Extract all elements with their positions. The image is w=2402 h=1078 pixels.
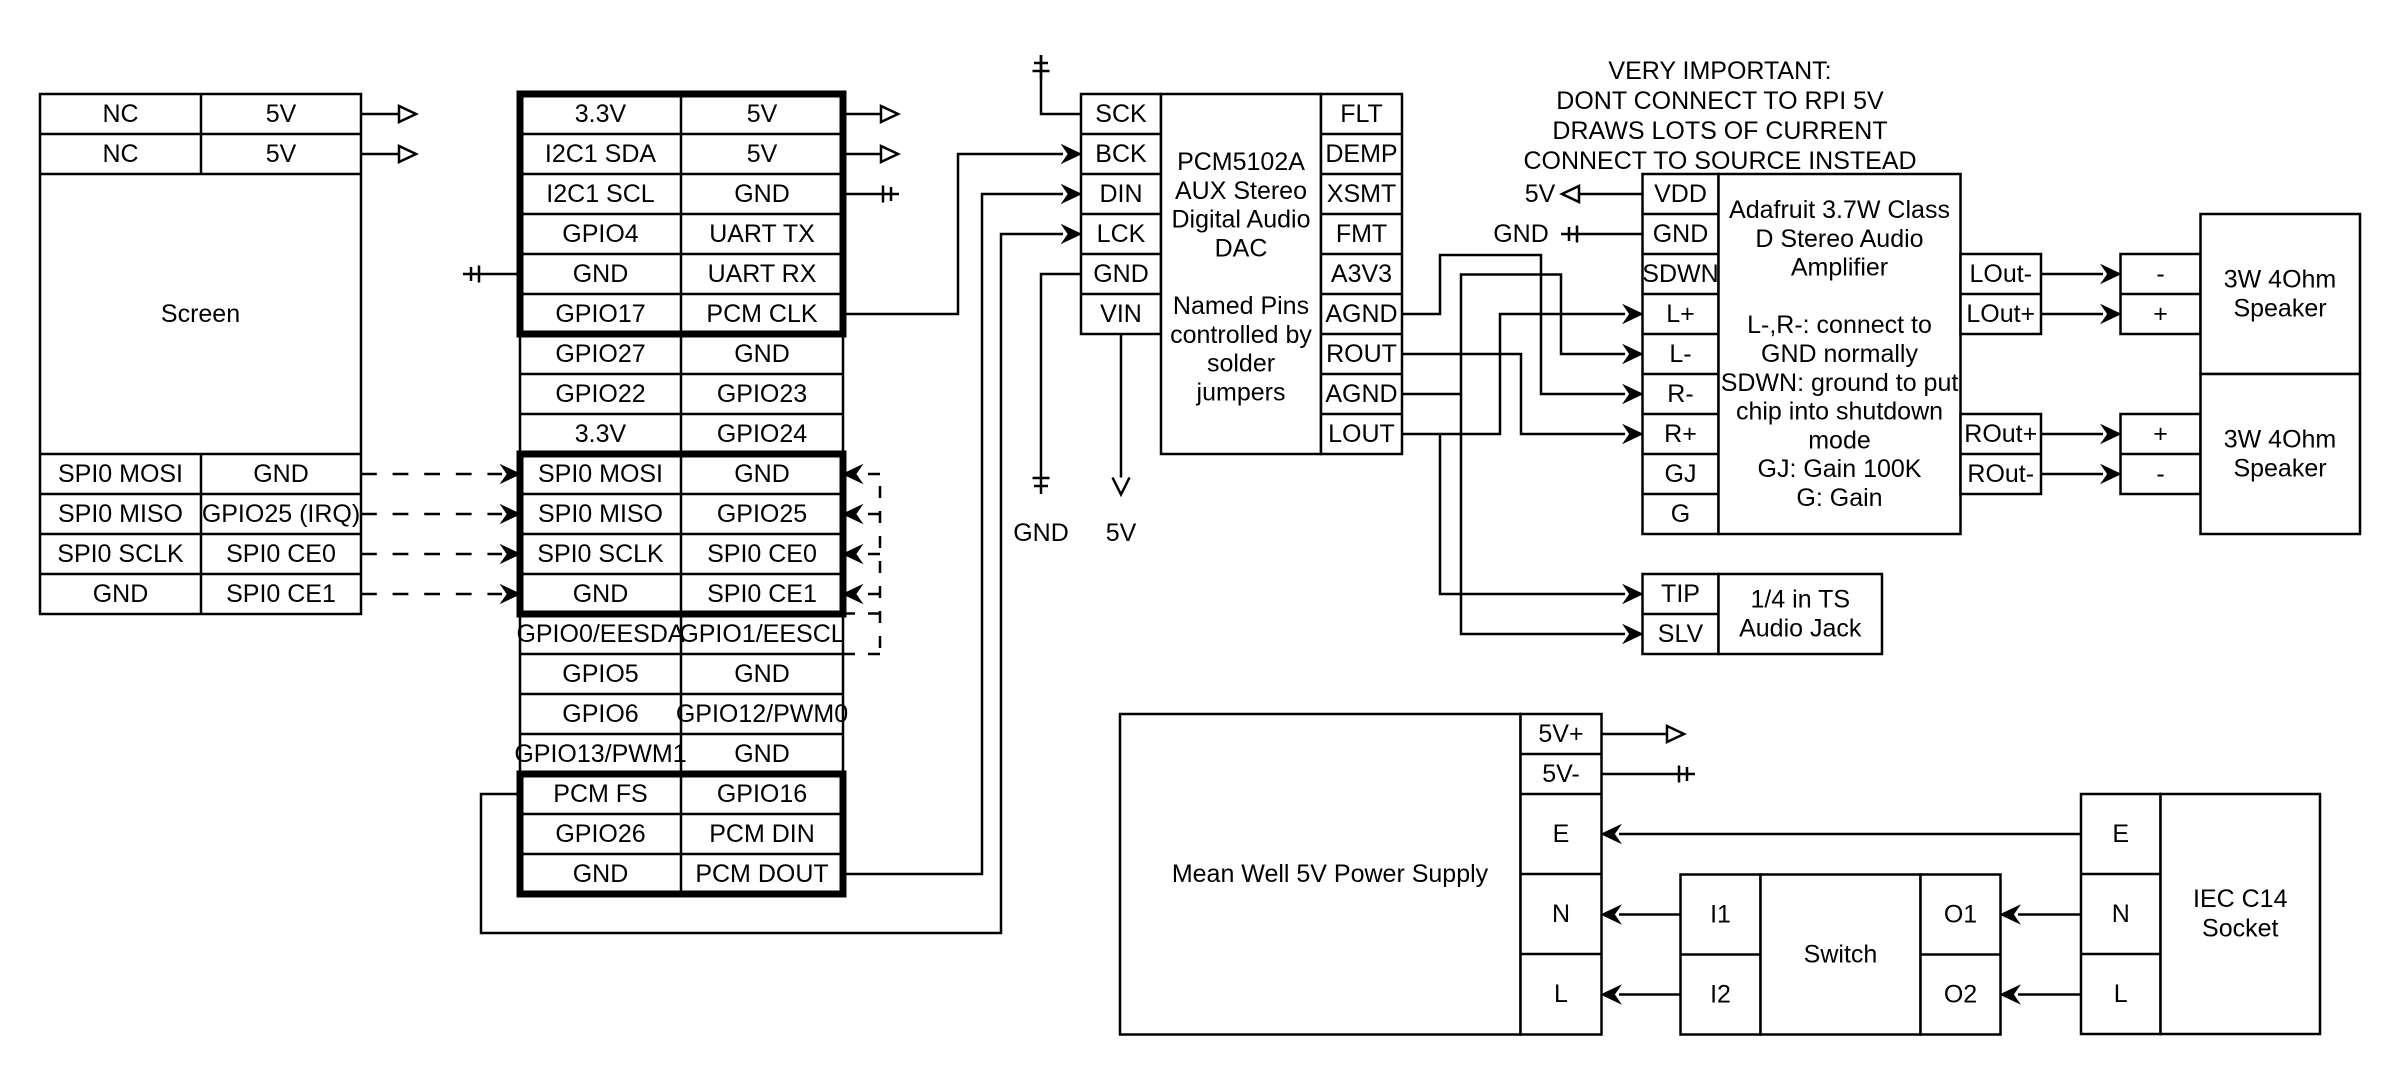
svg-text:PCM CLK: PCM CLK — [706, 300, 817, 328]
wire ROut- to speaker2 minus — [2041, 473, 2103, 476]
wire supply 5V+ to open arrow — [1602, 733, 1668, 736]
open arrow gpio 5V row1 — [881, 106, 898, 122]
svg-text:L+: L+ — [1666, 300, 1695, 328]
dac body box — [1161, 94, 1321, 454]
wire gpio GND row3 to ground — [843, 193, 875, 196]
svg-text:GPIO4: GPIO4 — [562, 220, 639, 248]
wire SCK to top ground — [1041, 55, 1081, 114]
svg-text:TIP: TIP — [1661, 580, 1700, 608]
wire VIN down to 5V arrow — [1120, 334, 1123, 478]
svg-text:-: - — [2156, 460, 2164, 488]
arrow into L- — [1624, 345, 1643, 363]
open arrow gpio 5V row2 — [881, 146, 898, 162]
svg-text:IEC C14: IEC C14 — [2193, 885, 2288, 913]
wire LOUT to L+ — [1402, 314, 1625, 434]
arrow into gpio SPI0 CE — [501, 585, 520, 603]
svg-text:Amplifier: Amplifier — [1791, 254, 1888, 282]
svg-text:SPI0 CE1: SPI0 CE1 — [707, 580, 817, 608]
svg-text:DEMP: DEMP — [1325, 140, 1397, 168]
wire AGND to R- — [1402, 255, 1625, 394]
svg-text:Mean Well 5V Power Supply: Mean Well 5V Power Supply — [1172, 860, 1489, 888]
arrow into LCK — [1062, 225, 1081, 243]
svg-text:PCM5102A: PCM5102A — [1177, 148, 1305, 176]
svg-text:SPI0 SCLK: SPI0 SCLK — [537, 540, 664, 568]
svg-text:R+: R+ — [1664, 420, 1697, 448]
audio jack pin table — [1643, 574, 1719, 654]
arrow into gpio SPI0 MISO — [501, 505, 520, 523]
arrow into DIN — [1062, 185, 1081, 203]
svg-text:jumpers: jumpers — [1196, 378, 1286, 406]
svg-text:SPI0 CE1: SPI0 CE1 — [226, 580, 336, 608]
svg-text:GPIO1/EESCL: GPIO1/EESCL — [679, 620, 844, 648]
switch output pin table — [1921, 875, 2001, 1035]
svg-text:GPIO12/PWM0: GPIO12/PWM0 — [676, 700, 848, 728]
svg-text:GPIO27: GPIO27 — [555, 340, 645, 368]
iec socket box — [2161, 794, 2321, 1034]
wire iec L to switch O2 — [2018, 993, 2081, 996]
dashed wire screen SPI0 MOSI to gpio — [361, 473, 502, 476]
svg-text:O2: O2 — [1944, 981, 1977, 1009]
arrow into speaker1 minus — [2102, 265, 2121, 283]
screen module table — [40, 94, 361, 614]
svg-text:ROUT: ROUT — [1326, 340, 1397, 368]
open arrow 5V at VDD — [1562, 186, 1579, 202]
dac right pin column — [1321, 94, 1402, 454]
svg-text:3W 4Ohm: 3W 4Ohm — [2224, 426, 2337, 454]
arrow into supply N — [1602, 906, 1621, 924]
svg-text:I2C1 SDA: I2C1 SDA — [545, 140, 656, 168]
svg-text:FMT: FMT — [1336, 220, 1387, 248]
arrow into gpio GPIO25 — [843, 505, 862, 523]
svg-text:GPIO23: GPIO23 — [717, 380, 807, 408]
wire LOut+ to speaker1 plus — [2041, 313, 2103, 316]
svg-text:Speaker: Speaker — [2233, 454, 2326, 482]
svg-text:5V-: 5V- — [1542, 760, 1580, 788]
svg-text:L-: L- — [1669, 340, 1691, 368]
switch body box — [1761, 875, 1921, 1035]
svg-text:ROut+: ROut+ — [1964, 420, 2037, 448]
svg-text:+: + — [2153, 300, 2168, 328]
svg-text:VDD: VDD — [1654, 180, 1707, 208]
svg-text:SCK: SCK — [1095, 100, 1147, 128]
iec socket pin table — [2081, 794, 2161, 1034]
svg-text:I2: I2 — [1710, 981, 1731, 1009]
dashed stub to gpio eeprom row bottom — [843, 653, 880, 656]
mean well power supply box — [1120, 714, 1521, 1035]
svg-text:O1: O1 — [1944, 901, 1977, 929]
svg-text:L: L — [1554, 980, 1568, 1008]
dashed wire stub gpio SPI0 CE1 — [860, 593, 880, 596]
amplifier body box — [1719, 174, 1961, 534]
svg-text:PCM FS: PCM FS — [553, 780, 647, 808]
arrow into supply E — [1602, 825, 1621, 843]
svg-text:G: G — [1671, 500, 1690, 528]
dashed wire stub gpio GPIO25 — [860, 513, 880, 516]
wire gpio GND row5 to ground — [487, 273, 520, 276]
arrow into speaker2 minus — [2102, 465, 2121, 483]
svg-text:3.3V: 3.3V — [575, 100, 627, 128]
svg-text:Digital Audio: Digital Audio — [1172, 206, 1311, 234]
arrow into speaker1 plus — [2102, 305, 2121, 323]
svg-text:GJ: Gain 100K: GJ: Gain 100K — [1758, 455, 1922, 483]
svg-text:GND: GND — [734, 340, 790, 368]
wire AGND2 down to SLV — [1461, 394, 1625, 634]
gpio thick border group PCM rows — [520, 774, 843, 894]
svg-text:VERY IMPORTANT:: VERY IMPORTANT: — [1608, 57, 1831, 85]
svg-text:LOut+: LOut+ — [1966, 300, 2035, 328]
svg-text:GPIO25: GPIO25 — [717, 500, 807, 528]
svg-text:SPI0 CE0: SPI0 CE0 — [707, 540, 817, 568]
svg-text:N: N — [2112, 900, 2130, 928]
svg-text:GPIO22: GPIO22 — [555, 380, 645, 408]
svg-text:GND: GND — [734, 740, 790, 768]
svg-text:solder: solder — [1207, 350, 1275, 378]
power supply pin column — [1521, 714, 1602, 1035]
svg-text:5V: 5V — [747, 140, 778, 168]
svg-text:GPIO26: GPIO26 — [555, 820, 645, 848]
svg-text:AGND: AGND — [1325, 380, 1397, 408]
arrow into gpio SPI0 MOSI — [501, 465, 520, 483]
svg-text:5V: 5V — [266, 100, 297, 128]
svg-text:GND: GND — [573, 260, 629, 288]
wire PCM CLK to BCK — [843, 154, 1063, 314]
open arrow screen 5V row1 — [399, 106, 416, 122]
svg-text:GND normally: GND normally — [1761, 340, 1918, 368]
svg-text:5V: 5V — [1525, 180, 1556, 208]
arrow into TIP — [1624, 585, 1643, 603]
arrow into supply L — [1602, 986, 1621, 1004]
dashed wire stub gpio SPI0 CE0 — [860, 553, 880, 556]
open arrow screen 5V row2 — [399, 146, 416, 162]
wire ROut+ to speaker2 plus — [2041, 433, 2103, 436]
gpio table row lines — [520, 133, 843, 136]
svg-text:BCK: BCK — [1095, 140, 1147, 168]
svg-text:Screen: Screen — [161, 300, 240, 328]
speaker1 box — [2201, 214, 2361, 374]
wire ROUT to R+ — [1402, 354, 1625, 434]
gpio thick border group SPI rows — [520, 454, 843, 614]
svg-text:PCM DOUT: PCM DOUT — [695, 860, 828, 888]
svg-text:Adafruit 3.7W Class: Adafruit 3.7W Class — [1729, 196, 1950, 224]
svg-text:GND: GND — [573, 860, 629, 888]
svg-text:GPIO5: GPIO5 — [562, 660, 638, 688]
wire gpio 5V row2 to open arrow — [843, 153, 881, 156]
raspberry pi gpio header table — [520, 94, 843, 894]
svg-text:GND: GND — [1653, 220, 1709, 248]
wire iec E to supply E — [1619, 833, 2081, 836]
svg-text:I2C1 SCL: I2C1 SCL — [546, 180, 654, 208]
ground symbol at supply 5V- — [1671, 766, 1695, 783]
svg-text:Speaker: Speaker — [2233, 294, 2326, 322]
svg-text:3.3V: 3.3V — [575, 420, 627, 448]
speaker1 pin table — [2121, 254, 2201, 334]
svg-text:N: N — [1552, 900, 1570, 928]
speaker2 pin table — [2121, 414, 2201, 494]
ground symbol at amp GND — [1561, 226, 1585, 243]
wire PCM FS to LCK — [481, 234, 1063, 933]
svg-text:SLV: SLV — [1658, 620, 1704, 648]
svg-text:LOut-: LOut- — [1969, 260, 2032, 288]
wire gpio 5V row1 to open arrow — [843, 113, 881, 116]
wire LOut- to speaker1 minus — [2041, 273, 2103, 276]
screen table column divider — [200, 94, 203, 174]
dashed wire screen SPI0 MISO to gpio — [361, 513, 502, 516]
arrow into speaker2 plus — [2102, 425, 2121, 443]
svg-text:L: L — [2114, 980, 2128, 1008]
svg-text:XSMT: XSMT — [1327, 180, 1396, 208]
svg-text:GND: GND — [734, 180, 790, 208]
svg-text:3W 4Ohm: 3W 4Ohm — [2224, 266, 2337, 294]
dashed wire stub gpio GND spi row — [860, 473, 880, 476]
wire I1 to supply N — [1619, 913, 1681, 916]
arrow into gpio SPI0 SCLK — [501, 545, 520, 563]
svg-text:SPI0 MISO: SPI0 MISO — [538, 500, 663, 528]
wire dac GND pin down to ground — [1041, 274, 1081, 470]
wire supply 5V- to ground — [1602, 773, 1672, 776]
svg-text:E: E — [1553, 820, 1570, 848]
svg-text:Audio Jack: Audio Jack — [1739, 614, 1862, 642]
svg-text:L-,R-: connect to: L-,R-: connect to — [1747, 311, 1932, 339]
open V arrow 5V below VIN — [1113, 478, 1130, 495]
svg-text:I1: I1 — [1710, 901, 1731, 929]
svg-text:AUX Stereo: AUX Stereo — [1175, 177, 1307, 205]
svg-text:D Stereo Audio: D Stereo Audio — [1755, 225, 1923, 253]
svg-text:controlled by: controlled by — [1170, 321, 1312, 349]
svg-text:GND: GND — [253, 460, 309, 488]
svg-text:SPI0 MOSI: SPI0 MOSI — [58, 460, 183, 488]
dashed stub to gpio eeprom row top — [843, 612, 880, 615]
arrow into L+ — [1624, 305, 1643, 323]
arrow into gpio SPI0 CE1 — [843, 585, 862, 603]
svg-text:G: Gain: G: Gain — [1796, 484, 1882, 512]
speaker2 box — [2201, 374, 2361, 534]
dashed wire screen SPI0 SCLK to gpio — [361, 553, 502, 556]
svg-text:GPIO13/PWM1: GPIO13/PWM1 — [514, 740, 686, 768]
svg-text:CONNECT TO SOURCE INSTEAD: CONNECT TO SOURCE INSTEAD — [1523, 147, 1916, 175]
svg-text:Named Pins: Named Pins — [1173, 292, 1309, 320]
wire amp GND to ground symbol — [1585, 233, 1643, 236]
svg-text:SDWN: SDWN — [1642, 260, 1718, 288]
svg-text:mode: mode — [1808, 426, 1871, 454]
svg-text:GPIO24: GPIO24 — [717, 420, 807, 448]
svg-text:-: - — [2156, 260, 2164, 288]
wire iec N to switch O1 — [2018, 913, 2081, 916]
svg-text:+: + — [2153, 420, 2168, 448]
svg-text:E: E — [2112, 820, 2129, 848]
svg-text:DIN: DIN — [1099, 180, 1142, 208]
svg-text:SPI0 SCLK: SPI0 SCLK — [57, 540, 184, 568]
svg-text:A3V3: A3V3 — [1331, 260, 1392, 288]
wire amp VDD to 5V open arrow — [1579, 193, 1643, 196]
svg-text:AGND: AGND — [1325, 300, 1397, 328]
svg-text:FLT: FLT — [1340, 100, 1383, 128]
svg-text:GPIO17: GPIO17 — [555, 300, 645, 328]
wire PCM DOUT to DIN — [843, 194, 1063, 874]
wire screen 5V row2 to open arrow — [361, 153, 399, 156]
svg-text:GPIO16: GPIO16 — [717, 780, 807, 808]
svg-text:UART TX: UART TX — [709, 220, 815, 248]
svg-text:SPI0 MISO: SPI0 MISO — [58, 500, 183, 528]
svg-text:GJ: GJ — [1665, 460, 1697, 488]
wire LOUT junction to TIP — [1440, 434, 1625, 594]
svg-text:SDWN: ground to put: SDWN: ground to put — [1721, 369, 1959, 397]
arrow into BCK — [1062, 145, 1081, 163]
svg-text:Switch: Switch — [1804, 941, 1878, 969]
svg-text:NC: NC — [102, 100, 138, 128]
amp ROut pin table — [1961, 414, 2042, 494]
svg-text:PCM DIN: PCM DIN — [709, 820, 815, 848]
svg-text:5V: 5V — [747, 100, 778, 128]
svg-text:GPIO0/EESDA: GPIO0/EESDA — [516, 620, 684, 648]
ground symbol left of gpio GND row5 — [463, 266, 487, 283]
svg-text:GND: GND — [1013, 519, 1069, 547]
arrow into switch O2 — [2001, 986, 2020, 1004]
svg-text:LCK: LCK — [1097, 220, 1146, 248]
svg-text:GPIO6: GPIO6 — [562, 700, 638, 728]
svg-text:NC: NC — [102, 140, 138, 168]
ground symbol below dac GND — [1033, 470, 1050, 494]
arrow into switch O1 — [2001, 906, 2020, 924]
svg-text:5V+: 5V+ — [1538, 720, 1583, 748]
gpio table column divider — [680, 94, 683, 894]
arrow into SLV — [1624, 625, 1643, 643]
svg-text:GND: GND — [1093, 260, 1149, 288]
svg-text:SPI0 CE0: SPI0 CE0 — [226, 540, 336, 568]
open arrow at supply 5V+ — [1667, 726, 1684, 742]
arrow into gpio GND spi row — [843, 465, 862, 483]
arrow into R+ — [1624, 425, 1643, 443]
svg-text:GND: GND — [573, 580, 629, 608]
wire screen 5V row1 to open arrow — [361, 113, 399, 116]
svg-text:GND: GND — [734, 660, 790, 688]
svg-text:DAC: DAC — [1215, 234, 1268, 262]
svg-text:GND: GND — [734, 460, 790, 488]
svg-text:SPI0 MOSI: SPI0 MOSI — [538, 460, 663, 488]
svg-text:chip into shutdown: chip into shutdown — [1736, 398, 1943, 426]
audio jack box — [1719, 574, 1883, 654]
svg-text:UART RX: UART RX — [708, 260, 817, 288]
svg-text:LOUT: LOUT — [1328, 420, 1395, 448]
screen table row lines — [40, 133, 361, 136]
switch input pin table — [1681, 875, 1761, 1035]
dashed vertical bus right of gpio table — [879, 486, 882, 654]
svg-text:GND: GND — [93, 580, 149, 608]
amplifier pin column — [1643, 174, 1719, 534]
svg-text:1/4 in TS: 1/4 in TS — [1750, 586, 1850, 614]
ground symbol above SCK — [1033, 55, 1050, 79]
wire AGND2 junction vertical — [1402, 275, 1625, 395]
ground symbol right of gpio GND row3 — [875, 186, 899, 203]
svg-text:5V: 5V — [266, 140, 297, 168]
gpio thick border group rows 1-6 — [520, 94, 843, 334]
arrow into R- — [1624, 385, 1643, 403]
amp LOut pin table — [1961, 254, 2042, 334]
svg-text:5V: 5V — [1106, 519, 1137, 547]
svg-text:Socket: Socket — [2202, 914, 2278, 942]
svg-text:GPIO25 (IRQ): GPIO25 (IRQ) — [202, 500, 360, 528]
svg-text:GND: GND — [1493, 220, 1549, 248]
wire I2 to supply L — [1619, 993, 1681, 996]
dashed wire screen SPI0 CE to gpio — [361, 593, 502, 596]
svg-text:ROut-: ROut- — [1967, 460, 2034, 488]
arrow into gpio SPI0 CE0 — [843, 545, 862, 563]
svg-text:DRAWS LOTS OF CURRENT: DRAWS LOTS OF CURRENT — [1552, 117, 1887, 145]
svg-text:DONT CONNECT TO RPI 5V: DONT CONNECT TO RPI 5V — [1556, 87, 1884, 115]
svg-text:R-: R- — [1667, 380, 1693, 408]
dac left pin column — [1081, 94, 1161, 334]
svg-text:VIN: VIN — [1100, 300, 1142, 328]
